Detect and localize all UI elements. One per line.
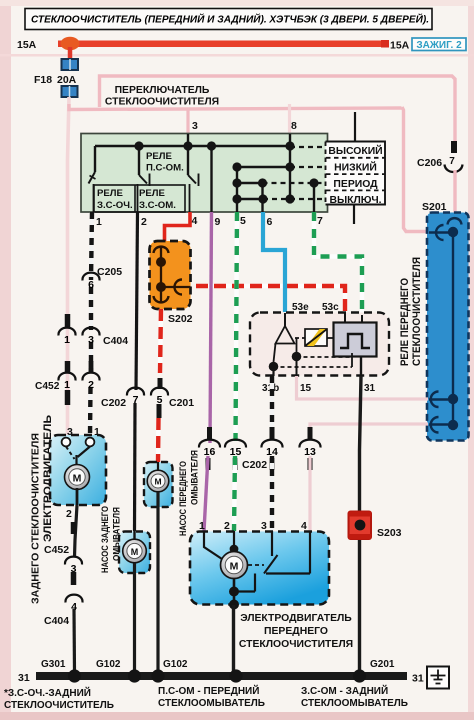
svg-text:СТЕКЛООЧИСТИТЕЛЯ: СТЕКЛООЧИСТИТЕЛЯ bbox=[105, 97, 219, 108]
svg-text:*З.С-ОЧ.-ЗАДНИЙ: *З.С-ОЧ.-ЗАДНИЙ bbox=[4, 686, 91, 699]
wire: red stub from bus to fuse bbox=[68, 47, 73, 60]
ground nodes G301 G102 G102 G201 bbox=[68, 669, 81, 682]
park switch contact bbox=[271, 531, 273, 556]
wire: rear motor ground bbox=[75, 505, 78, 557]
motor M (rear washer pump) bbox=[123, 539, 147, 563]
relay contact РЕЛЕ П.С-ОМ. (front washer) bbox=[187, 146, 189, 175]
wire: red/white S202 down to C201-5 bbox=[160, 309, 161, 373]
svg-text:C206: C206 bbox=[417, 157, 442, 169]
svg-text:6: 6 bbox=[88, 279, 94, 291]
svg-text:S203: S203 bbox=[377, 527, 402, 539]
relay contact РЕЛЕ З.С-ОЧ. (rear wiper) bbox=[138, 146, 140, 175]
svg-text:15: 15 bbox=[300, 383, 312, 394]
svg-text:НИЗКИЙ: НИЗКИЙ bbox=[334, 161, 377, 174]
connector C202 pin 7 bbox=[127, 388, 144, 396]
wire: relay 31b black/white to C202-14 bbox=[270, 376, 274, 441]
svg-text:C202: C202 bbox=[101, 397, 126, 409]
node: row ПЕРИОД dots bbox=[237, 182, 263, 184]
wire: pin1 black/white to rear wiper motor bbox=[91, 212, 92, 280]
svg-text:РЕЛЕ: РЕЛЕ bbox=[139, 188, 166, 199]
svg-text:НАСОС ПЕРЕДНЕГО: НАСОС ПЕРЕДНЕГО bbox=[178, 461, 189, 536]
wire: pin2 black to C202-7 and rear washer pump bbox=[136, 212, 138, 390]
wire: pin6 cyan to relay 53e bbox=[263, 212, 285, 312]
svg-text:З.С-ОМ.: З.С-ОМ. bbox=[139, 200, 176, 211]
wire: pale pink S201 to C202-13 bbox=[310, 424, 428, 437]
wire: green/white to front motor pin 2 bbox=[234, 456, 235, 531]
contact blade 1 bbox=[89, 172, 96, 184]
relay contact РЕЛЕ З.С-ОМ. (rear washer) bbox=[139, 175, 147, 184]
svg-text:ПЕРЕКЛЮЧАТЕЛЬ: ПЕРЕКЛЮЧАТЕЛЬ bbox=[115, 85, 210, 96]
switch position box ВЫСОКИЙ/НИЗКИЙ/ПЕРИОД/ВЫКЛЮЧ bbox=[354, 112, 356, 142]
svg-text:15A: 15A bbox=[390, 40, 410, 52]
transistor symbol bbox=[284, 313, 286, 326]
svg-text:31: 31 bbox=[412, 673, 424, 685]
wire: front wiper motor ground bbox=[232, 605, 235, 672]
wire: front washer pump ground bbox=[156, 492, 159, 672]
coil with yellow marker bbox=[305, 329, 327, 346]
net label ЗАЖИГ. 2 (ignition 2) bbox=[412, 38, 466, 51]
svg-text:ВЫСОКИЙ: ВЫСОКИЙ bbox=[328, 144, 382, 157]
svg-text:РЕЛЕ: РЕЛЕ bbox=[97, 188, 124, 199]
svg-text:53e: 53e bbox=[292, 302, 309, 313]
node: S201 terminals bbox=[448, 227, 458, 237]
svg-text:C205: C205 bbox=[97, 266, 122, 278]
svg-text:З.С-ОЧ.: З.С-ОЧ. bbox=[97, 200, 133, 211]
svg-text:ОМЫВАТЕЛЯ: ОМЫВАТЕЛЯ bbox=[190, 450, 201, 505]
wire: stub below position box bbox=[353, 205, 355, 224]
svg-text:ЗАЖИГ. 2: ЗАЖИГ. 2 bbox=[416, 40, 462, 51]
svg-text:1: 1 bbox=[64, 379, 70, 391]
connector C404 pin 4 bbox=[65, 595, 82, 603]
connector C201 pin 5 bbox=[151, 388, 168, 396]
svg-text:31: 31 bbox=[364, 383, 376, 394]
switch internal bus (pin 3/8 row) bbox=[95, 145, 290, 147]
title box bbox=[25, 9, 432, 30]
relay internal wiring bbox=[274, 344, 276, 363]
dashed row lines to position box bbox=[290, 146, 325, 148]
svg-text:3: 3 bbox=[192, 120, 198, 132]
svg-text:S202: S202 bbox=[168, 313, 193, 325]
svg-text:C452: C452 bbox=[35, 381, 60, 392]
svg-text:9: 9 bbox=[215, 216, 221, 228]
wire: pin 9 internal drop bbox=[210, 146, 212, 212]
connector C205 pin 6 bbox=[82, 273, 99, 281]
ground symbol bbox=[427, 667, 449, 689]
wire: relay 31 black to ground via S203 bbox=[360, 376, 362, 672]
node: fuse tap junction bbox=[61, 37, 80, 51]
svg-text:СТЕКЛООЧИСТИТЕЛЬ (ПЕРЕДНИЙ И З: СТЕКЛООЧИСТИТЕЛЬ (ПЕРЕДНИЙ И ЗАДНИЙ). ХЭ… bbox=[31, 13, 429, 26]
svg-text:7: 7 bbox=[449, 156, 455, 167]
rear washer pump box bbox=[119, 532, 150, 574]
wire: purple to front motor pin 1 bbox=[204, 456, 208, 531]
svg-text:M: M bbox=[230, 561, 239, 573]
svg-text:ПЕРЕДНЕГО: ПЕРЕДНЕГО bbox=[264, 626, 328, 637]
splice S203 bbox=[349, 512, 372, 540]
node: row НИЗКИЙ dots bbox=[237, 166, 290, 168]
wire: red/white to front washer pump bbox=[156, 418, 161, 462]
svg-text:31: 31 bbox=[18, 672, 30, 684]
splice S202 bbox=[150, 241, 191, 309]
wire: pink feed from fuse down left side bbox=[68, 97, 70, 436]
svg-text:1: 1 bbox=[64, 334, 70, 346]
wire: black/white to front motor pin 3 bbox=[270, 456, 274, 531]
svg-text:5: 5 bbox=[240, 215, 246, 227]
svg-text:ЭЛЕКТРОДВИГАТЕЛЬ: ЭЛЕКТРОДВИГАТЕЛЬ bbox=[240, 613, 352, 624]
svg-text:РЕЛЕ ПЕРЕДНЕГО: РЕЛЕ ПЕРЕДНЕГО bbox=[399, 278, 411, 366]
svg-text:G102: G102 bbox=[96, 659, 121, 670]
svg-text:C452: C452 bbox=[44, 544, 69, 556]
wire: rear washer pump ground bbox=[133, 563, 136, 672]
svg-text:СТЕКЛООМЫВАТЕЛЬ: СТЕКЛООМЫВАТЕЛЬ bbox=[158, 698, 265, 709]
svg-text:3: 3 bbox=[88, 334, 94, 346]
wire: pin8 drop inside box bbox=[289, 134, 291, 146]
wire: pin3 drop inside box bbox=[187, 134, 189, 146]
svg-text:2: 2 bbox=[66, 508, 72, 520]
svg-text:2: 2 bbox=[88, 379, 94, 391]
svg-text:7: 7 bbox=[317, 215, 323, 227]
svg-text:C404: C404 bbox=[103, 335, 128, 347]
wire: pink feed rail to switch (lower) bbox=[69, 104, 402, 110]
svg-text:20A: 20A bbox=[57, 74, 77, 86]
motor M (front washer pump) bbox=[147, 470, 169, 492]
svg-text:1: 1 bbox=[96, 216, 102, 228]
svg-text:M: M bbox=[154, 477, 161, 487]
svg-text:6: 6 bbox=[267, 216, 273, 228]
motor M (rear wiper) bbox=[65, 465, 90, 490]
wire: pin4 red to splice S202 bbox=[165, 212, 191, 242]
wire: pin9 purple to C202-16 bbox=[210, 212, 212, 443]
connector C404 pins 1,3 bbox=[65, 314, 71, 328]
wire: pink drop to switch pin 8 bbox=[288, 104, 291, 134]
connector C202 pins 16,15,14,13 bbox=[207, 427, 212, 440]
svg-text:НАСОС ЗАДНЕГО: НАСОС ЗАДНЕГО bbox=[100, 506, 111, 573]
svg-text:П.С-ОМ - ПЕРЕДНИЙ: П.С-ОМ - ПЕРЕДНИЙ bbox=[158, 684, 259, 697]
svg-text:8: 8 bbox=[291, 120, 297, 132]
svg-text:ПЕРИОД: ПЕРИОД bbox=[333, 179, 378, 190]
label cells РЕЛЕ З.С-ОЧ. / РЕЛЕ З.С-ОМ. bbox=[94, 185, 185, 212]
node: bus dots bbox=[134, 141, 143, 150]
svg-text:ЗАДНЕГО СТЕКЛООЧИСТИТЕЛЯ: ЗАДНЕГО СТЕКЛООЧИСТИТЕЛЯ bbox=[31, 433, 42, 604]
svg-text:15A: 15A bbox=[17, 39, 37, 51]
svg-text:СТЕКЛООМЫВАТЕЛЬ: СТЕКЛООМЫВАТЕЛЬ bbox=[301, 698, 408, 709]
wire: pin7 green/white to front wiper relay bbox=[314, 212, 362, 315]
pulse timer box bbox=[334, 323, 377, 357]
wire: pin5 green/white to C202-15 bbox=[236, 212, 238, 441]
motor M (front wiper) bbox=[204, 531, 222, 559]
svg-text:З.С-ОМ - ЗАДНИЙ: З.С-ОМ - ЗАДНИЙ bbox=[301, 684, 388, 697]
wire: pink drop to splice S201 bbox=[402, 107, 428, 232]
connector C206 pin 7 bbox=[451, 141, 457, 153]
wire: red/white S202 to relay 53c bbox=[196, 286, 345, 312]
svg-text:ВЫКЛЮЧ.: ВЫКЛЮЧ. bbox=[329, 195, 381, 206]
svg-text:G201: G201 bbox=[370, 659, 395, 670]
fuse F18 20A bbox=[62, 59, 79, 70]
svg-text:C202: C202 bbox=[242, 459, 267, 471]
svg-text:2: 2 bbox=[141, 216, 147, 228]
connector C452 pins 1,2 bbox=[65, 361, 71, 372]
svg-text:РЕЛЕ: РЕЛЕ bbox=[146, 151, 173, 162]
svg-text:F18: F18 bbox=[34, 74, 52, 86]
svg-text:G102: G102 bbox=[163, 659, 188, 670]
ground rail 31 bbox=[36, 672, 407, 680]
node: row ВЫКЛЮЧ dots bbox=[237, 198, 263, 200]
svg-text:СТЕКЛООЧИСТИТЕЛЬ: СТЕКЛООЧИСТИТЕЛЬ bbox=[4, 700, 114, 711]
svg-text:П.С-ОМ.: П.С-ОМ. bbox=[146, 163, 184, 174]
svg-text:M: M bbox=[73, 473, 82, 485]
wire: pink feed rail upper to C206 bbox=[100, 76, 456, 141]
svg-text:53с: 53с bbox=[322, 302, 339, 313]
svg-text:C201: C201 bbox=[169, 397, 194, 409]
wire: relay 15 pale pink to S201 bbox=[297, 376, 429, 399]
wire: pink drop to switch pin 3 bbox=[186, 108, 189, 134]
wire: pale pink to front motor pin 4 bbox=[308, 456, 311, 531]
front wiper relay box (РЕЛЕ ПЕРЕДНЕГО СТЕКЛООЧИСТИТЕЛЯ) bbox=[250, 313, 389, 376]
svg-text:M: M bbox=[131, 547, 139, 557]
svg-text:G301: G301 bbox=[41, 659, 66, 670]
svg-text:4: 4 bbox=[192, 215, 198, 227]
front washer pump box bbox=[144, 462, 173, 507]
svg-text:СТЕКЛООЧИСТИТЕЛЯ: СТЕКЛООЧИСТИТЕЛЯ bbox=[239, 639, 353, 650]
svg-text:C404: C404 bbox=[44, 615, 69, 627]
svg-text:СТЕКЛООЧИСТИТЕЛЯ: СТЕКЛООЧИСТИТЕЛЯ bbox=[411, 257, 423, 366]
